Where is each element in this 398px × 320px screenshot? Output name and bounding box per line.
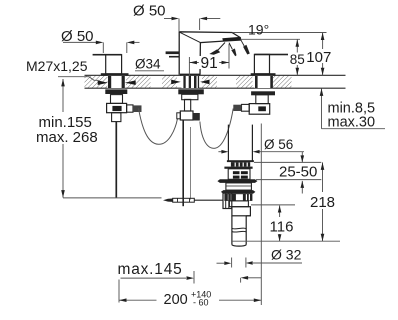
svg-text:Ø 50: Ø 50 [133,3,166,20]
svg-text:- 60: - 60 [193,298,209,308]
svg-text:max.145: max.145 [118,261,183,278]
svg-text:200: 200 [164,292,188,308]
svg-text:Ø 56: Ø 56 [264,137,293,152]
svg-text:85: 85 [290,52,305,67]
svg-text:25-50: 25-50 [279,164,317,181]
svg-text:max.30: max.30 [328,115,376,131]
svg-text:max. 268: max. 268 [36,129,98,146]
svg-text:Ø 32: Ø 32 [271,247,302,263]
svg-text:19°: 19° [248,22,269,38]
svg-text:M27x1,25: M27x1,25 [26,58,88,74]
svg-text:Ø34: Ø34 [135,56,161,71]
svg-text:Ø 50: Ø 50 [61,28,94,45]
svg-text:91: 91 [201,55,218,72]
svg-text:116: 116 [270,219,294,236]
svg-text:218: 218 [310,194,335,211]
svg-text:107: 107 [306,49,331,66]
